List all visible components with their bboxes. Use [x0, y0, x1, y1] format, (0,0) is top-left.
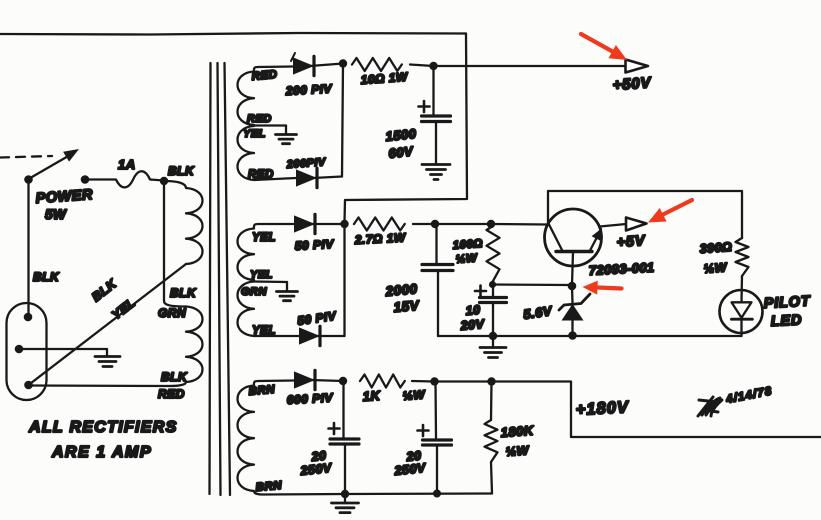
fuse 1A [85, 171, 164, 187]
ground BRN [332, 494, 359, 513]
svg-text:LED: LED [770, 312, 802, 330]
svg-text:100Ω: 100Ω [452, 238, 483, 252]
svg-text:15V: 15V [393, 298, 420, 315]
YEL center tap wire [254, 280, 287, 283]
svg-text:½W: ½W [402, 387, 426, 403]
terminal arrow +5V [626, 218, 647, 231]
label 1K [362, 387, 426, 404]
label YEL bottom [252, 325, 276, 337]
label BLK fuse [168, 164, 195, 178]
note ALL RECTIFIERS ARE 1 AMP [28, 419, 178, 461]
RED center tap wire [254, 124, 286, 126]
wire rail to transistor [491, 223, 547, 226]
svg-text:BLK: BLK [161, 370, 188, 384]
svg-text:200PIV: 200PIV [285, 156, 327, 171]
node zener base [568, 282, 577, 291]
node 100ohm top [487, 220, 495, 228]
label YEL diagonal [109, 295, 138, 322]
svg-text:PILOT: PILOT [763, 294, 811, 312]
svg-text:180K: 180K [500, 423, 535, 440]
terminal arrow +50V [626, 60, 649, 73]
pilot LED [720, 290, 763, 336]
ground 10uF cap [480, 336, 506, 358]
ground 1500 cap [422, 165, 450, 180]
svg-text:YEL: YEL [109, 295, 138, 322]
label +180V [575, 398, 630, 419]
label BLK GRN tap [158, 286, 197, 320]
svg-text:½W: ½W [703, 260, 728, 276]
wire BLK-YEL diagonal [29, 264, 187, 385]
ground primary [95, 349, 120, 367]
red annotation arrow 3 [583, 281, 622, 295]
svg-text:GRN: GRN [158, 306, 186, 320]
label RED YEL tap [243, 113, 272, 140]
resistor 100ohm half W [487, 226, 500, 285]
svg-text:50 PIV: 50 PIV [294, 237, 334, 253]
wire switch to plug [27, 180, 29, 318]
node 5V rail [340, 220, 348, 228]
svg-text:10Ω 1W: 10Ω 1W [360, 70, 409, 87]
node rail cap2 [433, 490, 441, 498]
label RED bottom [248, 169, 274, 181]
svg-text:BRN: BRN [255, 480, 283, 494]
label YEL top [252, 232, 276, 244]
svg-text:20V: 20V [459, 317, 486, 333]
collector top wire [548, 191, 742, 238]
wire 390 to LED [740, 276, 743, 302]
capacitor 20uF 250V first [329, 381, 360, 494]
capacitor 20uF 250V second [418, 382, 452, 494]
label +50V [612, 74, 653, 94]
dashed actuator line [0, 156, 52, 158]
label YEL GRN tap [241, 269, 273, 298]
svg-text:5W: 5W [45, 207, 67, 222]
svg-text:BLK: BLK [168, 164, 195, 178]
svg-text:RED: RED [158, 387, 185, 401]
node 2000uF cap [431, 220, 439, 228]
top border wire [0, 33, 466, 35]
diode 200PIV bottom [254, 168, 342, 187]
feedback wire from top to 5V rail node [345, 34, 468, 223]
svg-text:BLK: BLK [170, 286, 197, 300]
label 200PIV bottom [285, 156, 327, 171]
wire 100ohm to zener node [493, 283, 571, 286]
label RED top [251, 69, 278, 83]
svg-text:YEL: YEL [243, 128, 266, 140]
switch output node [81, 175, 90, 184]
label 10ohm 1W [360, 70, 409, 87]
label 50 PIV top [294, 237, 334, 253]
label 72093-001 [588, 260, 654, 278]
svg-text:ARE 1 AMP: ARE 1 AMP [51, 444, 152, 461]
primary tap wire [164, 181, 186, 307]
svg-text:200 PIV: 200 PIV [284, 82, 332, 98]
primary junction node [160, 177, 168, 185]
wire +180V out [492, 382, 821, 438]
svg-text:POWER: POWER [35, 187, 93, 207]
transistor emitter stroke [590, 228, 602, 251]
svg-text:390Ω: 390Ω [699, 240, 733, 256]
svg-text:RED: RED [247, 113, 272, 125]
label 10 20V [459, 303, 486, 333]
node 180K top [487, 377, 495, 385]
label 2000 15V [384, 281, 420, 315]
bottom rail 180V section [345, 492, 492, 495]
wire +50V out [434, 65, 626, 67]
svg-text:1500: 1500 [385, 126, 418, 144]
svg-text:10: 10 [465, 303, 481, 318]
svg-text:½W: ½W [505, 443, 530, 459]
wire BLK-RED bottom [29, 384, 171, 387]
svg-text:4/14/78: 4/14/78 [724, 385, 773, 406]
svg-text:BLK: BLK [33, 270, 60, 284]
plug pin middle [15, 345, 24, 354]
svg-text:2.7Ω 1W: 2.7Ω 1W [353, 230, 407, 247]
svg-text:1K: 1K [362, 388, 382, 404]
ground YEL tap [277, 282, 298, 301]
ground RED tap [276, 126, 297, 144]
svg-text:250V: 250V [299, 461, 334, 478]
svg-text:ALL RECTIFIERS: ALL RECTIFIERS [28, 419, 178, 436]
bottom rail 5V section [438, 335, 742, 337]
transformer core [210, 63, 231, 495]
red annotation arrow 2 [648, 200, 692, 223]
resistor 180K halfW [485, 382, 498, 494]
red annotation arrow 1 [581, 34, 627, 60]
label 180K [500, 423, 535, 459]
label BLK RED bottom [158, 370, 188, 401]
plug pin bottom [24, 381, 33, 390]
label 20 250V second [393, 449, 428, 479]
diode 50PIV top [294, 214, 345, 233]
diode 600PIV [294, 370, 343, 389]
svg-text:2000: 2000 [384, 281, 418, 299]
emitter output wire [600, 224, 626, 227]
node cap 10uF [489, 281, 496, 288]
label 5.6V [522, 303, 553, 322]
label POWER 5W [35, 187, 93, 222]
zener diode 5.6V [559, 286, 590, 336]
svg-text:GRN: GRN [241, 286, 268, 298]
transistor collector stroke [548, 223, 562, 251]
wire lower diode to node [342, 64, 343, 177]
wire rail to 180K [435, 380, 492, 382]
capacitor 2000uF 15V [422, 224, 453, 336]
plug connector [7, 303, 47, 400]
svg-text:YEL: YEL [250, 269, 273, 281]
primary lower winding [170, 307, 203, 387]
svg-text:250V: 250V [393, 461, 428, 478]
signature date [724, 385, 773, 406]
wire lower 50PIV to node [343, 224, 345, 336]
svg-text:72093-001: 72093-001 [588, 260, 654, 278]
label BLK diagonal [89, 276, 119, 304]
svg-text:YEL: YEL [252, 232, 276, 244]
label 200 PIV [284, 82, 332, 98]
primary upper winding [164, 181, 203, 264]
svg-text:BLK: BLK [89, 276, 119, 304]
capacitor 10uF 20V [475, 285, 507, 337]
node filter cap 50V [429, 62, 437, 70]
transistor base bar [556, 250, 592, 253]
signature initials [698, 397, 722, 416]
svg-text:BRN: BRN [248, 384, 276, 398]
label 100ohm halfW [452, 238, 483, 266]
node ground 5V rail [489, 332, 497, 340]
svg-text:1A: 1A [118, 157, 136, 172]
label BLK switch wire [33, 270, 60, 284]
resistor 2.7ohm 1W [354, 218, 435, 231]
secondary winding RED [238, 67, 294, 181]
label 1A [118, 157, 136, 172]
node BRN ground [341, 490, 349, 498]
capacitor 1500uF 60V [419, 66, 451, 163]
label 2.7ohm 1W [353, 230, 407, 247]
svg-text:5.6V: 5.6V [522, 303, 553, 322]
diode 50PIV bottom [254, 326, 345, 345]
switch pivot node [24, 175, 33, 184]
svg-text:+180V: +180V [575, 398, 630, 419]
svg-text:600 PIV: 600 PIV [286, 391, 333, 407]
wire rail to 100ohm node [435, 223, 491, 225]
label +5V [616, 233, 646, 251]
plug pin top [24, 313, 33, 322]
label 600 PIV [286, 391, 333, 407]
label BRN bottom [255, 480, 283, 494]
transistor 72093-001 body [545, 209, 602, 266]
resistor 10ohm 1W [352, 58, 434, 71]
secondary winding YEL [238, 224, 295, 336]
svg-text:50 PIV: 50 PIV [296, 309, 337, 328]
label 1500 60V [385, 126, 418, 161]
transistor base wire [572, 252, 573, 286]
svg-text:+50V: +50V [612, 74, 653, 94]
node 180V rect [339, 377, 347, 385]
diode 200PIV top [291, 53, 343, 76]
svg-text:½W: ½W [455, 252, 478, 266]
label 390ohm halfW [699, 240, 733, 276]
resistor 1K halfW [360, 375, 435, 388]
node +50V rect [339, 59, 347, 67]
node second cap [430, 377, 438, 385]
secondary winding BRN [238, 381, 346, 495]
node zener ground [568, 331, 577, 340]
svg-text:+5V: +5V [616, 233, 646, 251]
svg-text:60V: 60V [388, 143, 415, 161]
resistor 390ohm [736, 238, 749, 276]
label BRN top [248, 384, 276, 398]
label 20 250V first [299, 449, 334, 479]
switch blade [29, 149, 80, 179]
label 50 PIV bottom [296, 309, 337, 328]
svg-text:RED: RED [251, 69, 278, 83]
label PILOT LED [763, 294, 811, 330]
wire plug middle to ground [19, 348, 107, 350]
